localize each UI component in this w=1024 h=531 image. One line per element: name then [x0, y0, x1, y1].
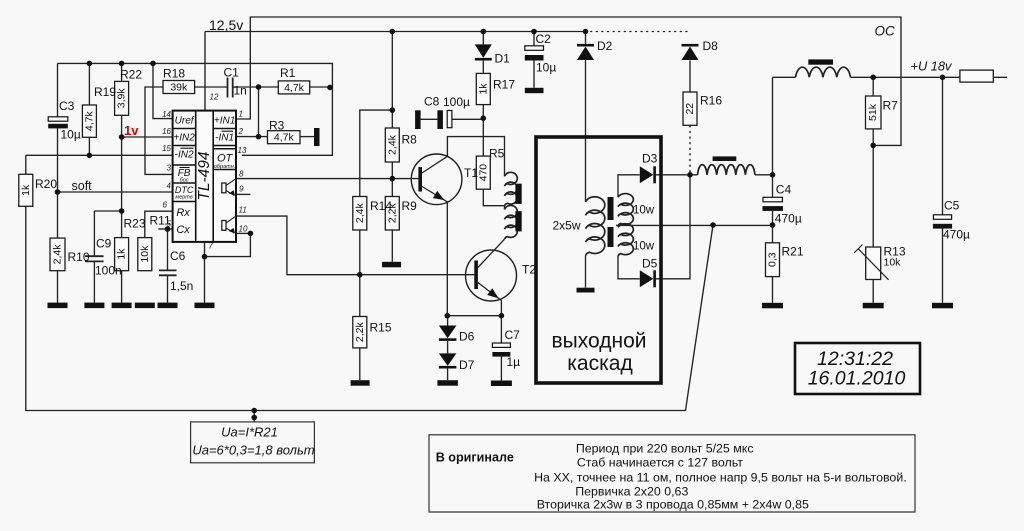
svg-text:D6: D6 [459, 330, 475, 344]
svg-text:бос: бос [180, 178, 189, 184]
svg-text:R1: R1 [280, 66, 296, 80]
svg-text:T2: T2 [522, 263, 536, 277]
svg-text:2: 2 [238, 127, 244, 136]
svg-text:3: 3 [167, 164, 172, 173]
svg-text:2,4k: 2,4k [52, 244, 64, 265]
svg-text:2,2k: 2,2k [354, 322, 366, 343]
svg-text:100n: 100n [95, 264, 122, 278]
svg-text:10: 10 [239, 225, 248, 234]
svg-text:OT: OT [217, 153, 234, 165]
svg-text:3,9k: 3,9k [116, 88, 128, 109]
svg-text:1µ: 1µ [507, 355, 521, 369]
svg-text:R18: R18 [163, 67, 185, 81]
svg-text:4,7k: 4,7k [274, 132, 295, 144]
svg-text:15: 15 [162, 144, 171, 153]
svg-text:1n: 1n [234, 84, 247, 98]
svg-text:C6: C6 [170, 249, 186, 263]
svg-text:C3: C3 [59, 99, 75, 113]
svg-text:7: 7 [209, 242, 214, 251]
svg-text:51k: 51k [867, 103, 879, 121]
svg-text:C4: C4 [776, 183, 792, 197]
svg-text:R10: R10 [68, 250, 90, 264]
svg-text:R7: R7 [883, 99, 899, 113]
svg-text:Первичка 2х20 0,63: Первичка 2х20 0,63 [575, 485, 688, 499]
svg-text:470µ: 470µ [775, 212, 802, 226]
svg-text:Cx: Cx [176, 224, 190, 236]
svg-text:1: 1 [239, 110, 243, 119]
svg-text:1k: 1k [116, 248, 128, 260]
svg-text:каскад: каскад [567, 352, 632, 375]
svg-text:C1: C1 [224, 66, 240, 80]
svg-text:39k: 39k [170, 82, 188, 94]
svg-text:10k: 10k [139, 245, 151, 263]
svg-text:На ХХ, точнее на 11 ом, полное: На ХХ, точнее на 11 ом, полное напр 9,5 … [534, 471, 907, 485]
svg-text:выходной: выходной [552, 330, 647, 353]
svg-text:R20: R20 [35, 177, 57, 191]
svg-text:В оригинале: В оригинале [436, 451, 514, 465]
svg-text:+IN1: +IN1 [214, 116, 235, 127]
svg-text:16: 16 [162, 127, 171, 136]
svg-text:10w: 10w [633, 205, 655, 217]
svg-text:DTC: DTC [175, 185, 194, 195]
svg-text:Период при 220 вольт 5/25 мкс: Период при 220 вольт 5/25 мкс [576, 442, 754, 456]
svg-text:D1: D1 [495, 52, 511, 66]
svg-text:Rx: Rx [176, 207, 190, 219]
svg-text:R23: R23 [124, 217, 146, 231]
svg-text:C7: C7 [505, 328, 521, 342]
svg-text:16.01.2010: 16.01.2010 [808, 368, 906, 390]
svg-text:R16: R16 [700, 94, 722, 108]
svg-text:-IN1: -IN1 [215, 133, 234, 144]
svg-text:12,5v: 12,5v [209, 17, 243, 33]
svg-text:R9: R9 [402, 199, 418, 213]
svg-text:D2: D2 [597, 39, 613, 53]
svg-text:R17: R17 [493, 78, 515, 92]
svg-text:OC: OC [875, 24, 896, 39]
svg-text:2x5w: 2x5w [553, 219, 581, 233]
svg-text:D7: D7 [459, 358, 475, 372]
svg-text:14: 14 [162, 110, 171, 119]
svg-text:D3: D3 [642, 152, 658, 166]
svg-text:10µ: 10µ [536, 61, 556, 75]
svg-text:10k: 10k [884, 257, 902, 269]
svg-text:13: 13 [238, 146, 247, 155]
svg-text:R5: R5 [489, 147, 505, 161]
svg-text:Uref: Uref [175, 116, 195, 127]
svg-text:Ua=6*0,3=1,8 вольт: Ua=6*0,3=1,8 вольт [192, 443, 314, 458]
svg-text:C5: C5 [944, 199, 960, 213]
svg-text:T1: T1 [464, 166, 478, 180]
svg-text:мертв: мертв [175, 195, 192, 201]
svg-text:soft: soft [72, 179, 93, 193]
svg-text:R19: R19 [94, 85, 116, 99]
svg-text:4,7k: 4,7k [83, 111, 95, 132]
svg-text:D5: D5 [642, 257, 658, 271]
svg-text:C9: C9 [96, 237, 112, 251]
svg-text:100µ: 100µ [443, 95, 470, 109]
svg-text:R22: R22 [120, 68, 142, 82]
svg-text:+U 18v: +U 18v [911, 59, 954, 74]
svg-text:1,5n: 1,5n [170, 279, 193, 293]
svg-text:R11: R11 [150, 214, 171, 228]
svg-text:10µ: 10µ [61, 128, 81, 142]
svg-text:R3: R3 [269, 119, 285, 133]
svg-text:9: 9 [239, 185, 244, 194]
svg-text:D8: D8 [703, 39, 719, 53]
svg-text:470: 470 [477, 164, 489, 182]
svg-text:C2: C2 [536, 32, 552, 46]
svg-text:6: 6 [163, 201, 168, 210]
svg-text:11: 11 [239, 206, 247, 215]
svg-text:1k: 1k [477, 83, 489, 95]
svg-text:4: 4 [167, 182, 172, 191]
svg-text:4,7k: 4,7k [284, 82, 305, 94]
svg-text:R15: R15 [370, 321, 392, 335]
svg-text:Ua=I*R21: Ua=I*R21 [221, 425, 278, 440]
svg-text:2,4k: 2,4k [354, 203, 366, 224]
svg-text:12: 12 [210, 93, 219, 102]
svg-text:обратн.: обратн. [214, 164, 235, 170]
svg-text:R21: R21 [782, 245, 804, 259]
svg-text:10w: 10w [633, 241, 655, 253]
svg-text:22: 22 [684, 103, 696, 115]
svg-text:-IN2: -IN2 [175, 150, 194, 161]
svg-text:Стаб начинается с 127 вольт: Стаб начинается с 127 вольт [577, 456, 743, 470]
svg-text:0,3: 0,3 [767, 252, 779, 267]
svg-text:R14: R14 [370, 199, 392, 213]
svg-text:+IN2: +IN2 [173, 133, 195, 144]
svg-text:R8: R8 [402, 133, 418, 147]
svg-text:470µ: 470µ [943, 228, 970, 242]
svg-text:Вторичка 2х3w в 3 провода 0,85: Вторичка 2х3w в 3 провода 0,85мм + 2х4w … [537, 498, 809, 512]
svg-text:2,4k: 2,4k [386, 134, 398, 155]
svg-text:8: 8 [239, 170, 244, 179]
svg-text:1k: 1k [20, 184, 32, 196]
svg-text:C8: C8 [424, 95, 440, 109]
svg-text:TL-494: TL-494 [196, 151, 213, 200]
svg-text:1v: 1v [124, 123, 139, 138]
